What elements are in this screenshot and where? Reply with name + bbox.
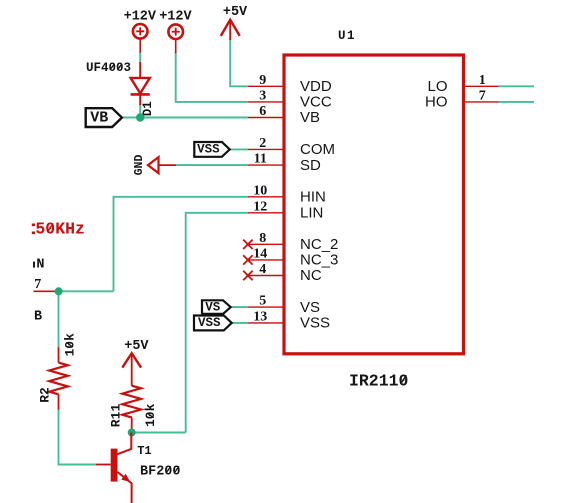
text 50KHz (clipped) — [32, 220, 85, 239]
svg-text:B: B — [34, 309, 42, 324]
svg-text:SD: SD — [300, 157, 321, 174]
wire +12V(b) to pin 3 VCC — [176, 52, 248, 102]
wire +5V(top) to pin 9 VDD — [230, 39, 248, 86]
wire pin 1 LO output — [499, 85, 535, 87]
svg-text:VS: VS — [300, 299, 320, 316]
wire VSS label to pin 2 COM — [230, 148, 248, 150]
node A junction — [55, 287, 63, 295]
svg-text:VDD: VDD — [300, 78, 332, 95]
svg-text:50KHz: 50KHz — [35, 220, 85, 239]
node B junction — [128, 429, 136, 437]
svg-text:VB: VB — [300, 109, 320, 126]
resistor R11 10k — [109, 386, 158, 433]
wire +12V(a) through D1 to node VB — [139, 52, 141, 118]
pin 13 VSS — [248, 310, 330, 332]
wire pin 10 HIN to node A — [114, 197, 248, 291]
svg-text:NC_3: NC_3 — [300, 252, 338, 269]
svg-text:14: 14 — [253, 247, 267, 262]
pin 11 SD — [248, 152, 321, 174]
svg-text:N: N — [36, 258, 44, 273]
svg-text:+5V: +5V — [223, 5, 248, 20]
svg-text:HIN: HIN — [300, 189, 326, 206]
svg-text:1: 1 — [479, 73, 486, 88]
power +12V symbol (left) — [124, 10, 157, 53]
svg-text:+5V: +5V — [124, 339, 149, 354]
svg-text:R11: R11 — [109, 404, 124, 428]
wire VSS label to pin 13 — [232, 322, 248, 324]
wire node A down to R2 — [58, 291, 60, 347]
svg-text:12: 12 — [253, 199, 267, 214]
pin 8 NC_2 — [243, 231, 338, 253]
svg-text:VSS: VSS — [198, 316, 221, 330]
svg-text:+12V: +12V — [159, 10, 192, 25]
wire node VB to pin 6 — [122, 117, 248, 119]
power +5V symbol (top) — [221, 5, 248, 40]
power +5V symbol (bottom) — [122, 339, 149, 386]
net label B (clipped) — [34, 309, 42, 324]
svg-text:11: 11 — [254, 152, 267, 167]
svg-text:LO: LO — [427, 78, 447, 95]
svg-text:2: 2 — [259, 136, 266, 151]
svg-text:VS: VS — [205, 300, 221, 314]
wire VS label to pin 5 — [231, 306, 248, 308]
pin 7 HO — [425, 89, 499, 111]
svg-text:D1: D1 — [141, 101, 155, 116]
wire node A to HIN vertical — [59, 290, 114, 292]
svg-text:NC: NC — [300, 267, 322, 284]
ground symbol GND — [133, 155, 176, 176]
svg-text:GND: GND — [133, 155, 146, 176]
svg-text:5: 5 — [259, 294, 266, 309]
resistor R2 10k — [37, 333, 77, 410]
external pin 7 (clipped connector) — [33, 277, 58, 292]
svg-text:8: 8 — [259, 231, 266, 246]
global label VS (pin5) — [202, 300, 231, 314]
global label VSS (pin13) — [194, 316, 232, 331]
svg-text:VB: VB — [90, 109, 108, 126]
pin 6 VB — [248, 104, 320, 126]
wire pin 7 HO output — [499, 101, 535, 103]
svg-text:COM: COM — [300, 141, 335, 158]
pin 2 COM — [248, 136, 335, 158]
svg-text:NC_2: NC_2 — [300, 236, 338, 253]
pin 4 NC — [243, 262, 322, 284]
svg-text:VSS: VSS — [300, 315, 330, 332]
wire node B (R11 bottom) to LIN vertical — [132, 432, 186, 434]
node VB junction — [136, 113, 144, 121]
svg-text:UF4003: UF4003 — [86, 61, 131, 75]
svg-text:T1: T1 — [137, 444, 151, 458]
IC U1 IR2110 body — [284, 29, 464, 390]
wire GND to pin 11 SD — [176, 164, 248, 166]
svg-text:3: 3 — [259, 89, 266, 104]
pin 1 LO — [427, 73, 498, 95]
svg-text:VCC: VCC — [300, 94, 332, 111]
transistor T1 BF200 — [96, 433, 181, 503]
global label VSS (pin2) — [194, 142, 229, 157]
diode D1 UF4003 — [86, 61, 155, 116]
svg-text:R2: R2 — [37, 387, 52, 403]
net label N (clipped) — [33, 258, 45, 273]
pin 5 VS — [248, 294, 320, 316]
pin 10 HIN — [248, 183, 326, 205]
wire pin 12 LIN down to node B — [186, 213, 248, 433]
pin 14 NC_3 — [243, 247, 338, 269]
svg-text:+12V: +12V — [124, 10, 157, 25]
svg-text:7: 7 — [34, 277, 41, 292]
svg-text:VSS: VSS — [197, 143, 220, 157]
pin 12 LIN — [248, 199, 323, 221]
svg-text:LIN: LIN — [300, 205, 323, 222]
svg-text:7: 7 — [479, 89, 486, 104]
svg-text:4: 4 — [259, 262, 266, 277]
pin 9 VDD — [248, 73, 332, 95]
svg-text:U1: U1 — [338, 29, 356, 43]
svg-text:13: 13 — [253, 310, 267, 325]
svg-text:10: 10 — [253, 183, 267, 198]
global label VB — [86, 108, 122, 127]
svg-text:9: 9 — [259, 73, 266, 88]
pin 3 VCC — [248, 89, 332, 111]
svg-text:6: 6 — [259, 104, 266, 119]
svg-text:HO: HO — [425, 94, 448, 111]
wire R2 bottom to T1 base — [59, 409, 97, 464]
power +12V symbol (right) — [159, 10, 192, 54]
svg-text:IR2110: IR2110 — [349, 371, 408, 390]
